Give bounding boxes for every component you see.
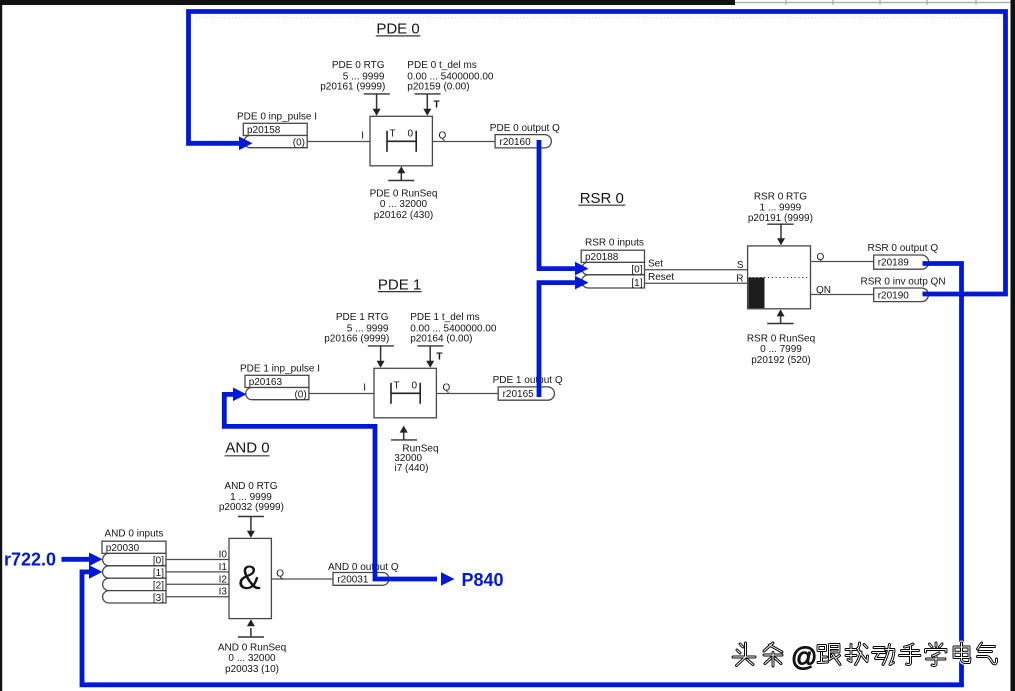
svg-text:p20033 (10): p20033 (10) [225, 664, 279, 675]
svg-text:AND 0 inputs: AND 0 inputs [105, 529, 164, 540]
param PDE 0 RunSeq p20162 [370, 166, 438, 221]
svg-text:P840: P840 [462, 570, 504, 590]
svg-text:RSR 0 inputs: RSR 0 inputs [585, 237, 644, 248]
svg-text:@: @ [791, 642, 817, 672]
wire p20158 to PDE0 block [307, 141, 370, 143]
svg-text:p20161 (9999): p20161 (9999) [320, 82, 385, 93]
svg-text:PDE 1 RTG: PDE 1 RTG [336, 312, 389, 323]
svg-text:0 ... 32000: 0 ... 32000 [380, 199, 428, 210]
wire PDE0 Q to r20160 [432, 141, 495, 143]
wire PDE1 Q to r20165 [436, 393, 498, 395]
connector output box r20190 [874, 288, 929, 302]
param PDE 0 RTG p20161 [320, 60, 390, 116]
wires p20030 rows to AND gate [166, 560, 229, 597]
svg-text:T: T [394, 381, 400, 392]
svg-text:r20190: r20190 [878, 291, 910, 302]
param AND 0 RTG p20032 [219, 481, 284, 538]
arrow into p20188[1] [575, 276, 589, 290]
svg-text:1 ... 9999: 1 ... 9999 [760, 202, 802, 213]
connector output box r20160 [495, 135, 551, 148]
arrow into p20163 [233, 388, 247, 402]
wire p20163 to PDE1 block [309, 393, 374, 395]
gate AND 0 [229, 538, 271, 618]
wire r722.0 to p20030[0] [62, 557, 91, 562]
svg-text:0 ... 32000: 0 ... 32000 [228, 653, 276, 664]
svg-text:p20192 (520): p20192 (520) [751, 355, 811, 366]
svg-text:r20031: r20031 [337, 575, 369, 586]
param PDE 1 RunSeq (clipped text) [391, 426, 439, 475]
svg-text:r20189: r20189 [878, 258, 910, 269]
svg-text:PDE 1 t_del ms: PDE 1 t_del ms [410, 312, 479, 323]
block RSR 0 (RS flip-flop) [748, 246, 811, 309]
svg-text:i7 (440): i7 (440) [395, 463, 429, 474]
connector output box r20189 [874, 255, 929, 269]
wire r20160 to RSR Set [539, 140, 576, 269]
left black edge strip [0, 4, 2, 691]
svg-text:T: T [390, 129, 396, 140]
svg-text:Q: Q [443, 383, 451, 394]
arrow into p20030[0] [89, 553, 103, 567]
wire RSR QN to r20190 [811, 294, 874, 296]
svg-text:p20166 (9999): p20166 (9999) [324, 334, 389, 345]
top black bar [0, 0, 735, 5]
svg-text:PDE 1 output Q: PDE 1 output Q [493, 375, 563, 386]
wire Reset to R [645, 282, 748, 284]
svg-text:0: 0 [408, 129, 414, 140]
svg-text:PDE 1: PDE 1 [378, 277, 421, 294]
param RSR 0 RunSeq p20192 [747, 309, 815, 365]
svg-text:AND 0 RTG: AND 0 RTG [224, 481, 277, 492]
svg-text:RSR 0 inv outp QN: RSR 0 inv outp QN [861, 276, 946, 287]
param PDE 0 t_del p20159 [407, 60, 494, 116]
svg-text:p20163: p20163 [249, 377, 283, 388]
svg-text:[0]: [0] [631, 265, 642, 276]
svg-text:R: R [736, 273, 743, 284]
svg-text:p20159 (0.00): p20159 (0.00) [407, 82, 469, 93]
arrow into p20158 [239, 137, 253, 151]
connector input box p20163 [245, 375, 309, 400]
svg-text:RSR 0 RunSeq: RSR 0 RunSeq [747, 333, 815, 344]
svg-text:p20030: p20030 [106, 543, 140, 554]
wire r20189 loop to p20030[1] [82, 264, 962, 685]
svg-text:PDE 1 inp_pulse I: PDE 1 inp_pulse I [240, 364, 320, 375]
svg-text:RSR 0 output Q: RSR 0 output Q [868, 243, 939, 254]
connector input box p20158 [243, 123, 307, 148]
svg-text:Reset: Reset [648, 272, 674, 283]
connector input box p20030 with rows [0]-[3] [102, 541, 166, 604]
right black edge strip [1011, 0, 1015, 691]
param PDE 1 RTG p20166 [324, 312, 394, 368]
svg-text:I1: I1 [219, 562, 228, 573]
wire r20190 feedback loop to p20158 input [189, 12, 1006, 295]
svg-text:(0): (0) [293, 137, 305, 148]
dashed page border line [196, 17, 1003, 19]
svg-text:[1]: [1] [153, 568, 164, 579]
title PDE 1 [378, 277, 422, 294]
svg-text:p20162 (430): p20162 (430) [374, 210, 434, 221]
svg-text:Set: Set [648, 258, 663, 269]
svg-text:S: S [737, 260, 744, 271]
svg-text:PDE 0 RTG: PDE 0 RTG [332, 60, 385, 71]
svg-text:p20158: p20158 [247, 125, 281, 136]
svg-text:PDE 0 t_del ms: PDE 0 t_del ms [407, 60, 476, 71]
svg-text:RSR 0 RTG: RSR 0 RTG [754, 192, 807, 203]
svg-text:I0: I0 [219, 550, 228, 561]
svg-text:AND 0: AND 0 [225, 439, 269, 456]
svg-text:T: T [436, 352, 442, 363]
param PDE 1 t_del p20164 [410, 312, 497, 368]
svg-text:I: I [363, 383, 366, 394]
arrow into p20188[0] [575, 262, 589, 276]
connector output box r20165 [498, 387, 554, 400]
wire Set to S [645, 269, 748, 271]
svg-text:Q: Q [276, 569, 284, 580]
title PDE 0 [376, 21, 421, 38]
svg-text:[2]: [2] [153, 581, 164, 592]
svg-text:p20032 (9999): p20032 (9999) [219, 502, 284, 513]
title RSR 0 [578, 190, 625, 207]
svg-text:&: & [238, 559, 261, 597]
svg-text:AND 0 RunSeq: AND 0 RunSeq [218, 642, 286, 653]
connector output box r20031 [333, 573, 389, 586]
svg-text:0 ... 7999: 0 ... 7999 [760, 344, 802, 355]
svg-text:PDE 0 inp_pulse I: PDE 0 inp_pulse I [237, 112, 317, 123]
svg-text:0: 0 [412, 381, 418, 392]
param AND 0 RunSeq p20033 [218, 619, 286, 675]
block PDE 0 (pulse delay element) [370, 116, 432, 166]
wire r20165 to RSR Reset [539, 283, 576, 397]
title AND 0 [225, 439, 270, 456]
svg-text:RSR 0: RSR 0 [580, 190, 624, 207]
svg-text:p20191 (9999): p20191 (9999) [748, 213, 813, 224]
svg-text:[0]: [0] [153, 556, 164, 567]
svg-text:I3: I3 [219, 587, 228, 598]
svg-text:r722.0: r722.0 [4, 550, 56, 570]
wire AND Q to r20031 [271, 578, 333, 580]
top thin gray table line [735, 0, 1011, 5]
arrow to P840 [441, 572, 455, 586]
svg-text:[3]: [3] [153, 593, 164, 604]
svg-text:PDE 0: PDE 0 [376, 21, 419, 38]
block PDE 1 (pulse delay element) [374, 368, 436, 418]
svg-text:r20160: r20160 [500, 137, 532, 148]
svg-text:AND 0 output Q: AND 0 output Q [328, 562, 399, 573]
wire RSR Q to r20189 [811, 261, 874, 263]
svg-text:PDE 0 output Q: PDE 0 output Q [490, 123, 560, 134]
svg-text:PDE 0 RunSeq: PDE 0 RunSeq [370, 188, 438, 199]
svg-text:(0): (0) [294, 389, 306, 400]
svg-text:T: T [434, 100, 440, 111]
param RSR 0 RTG p20191 [748, 192, 813, 246]
arrow into p20030[1] [89, 565, 103, 579]
svg-text:Q: Q [439, 131, 447, 142]
wire r20031 to P840 and to p20163 input [224, 394, 437, 579]
svg-text:[1]: [1] [631, 278, 642, 289]
svg-text:I: I [361, 131, 364, 142]
connector input box p20188 rows [0] [1] [581, 250, 644, 289]
svg-text:I2: I2 [219, 574, 228, 585]
svg-text:p20164 (0.00): p20164 (0.00) [410, 334, 472, 345]
svg-text:p20188: p20188 [585, 252, 619, 263]
svg-text:r20165: r20165 [503, 389, 535, 400]
